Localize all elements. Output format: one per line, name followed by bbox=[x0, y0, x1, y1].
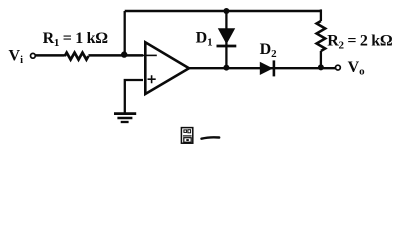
svg-text:R2 = 2 kΩ: R2 = 2 kΩ bbox=[327, 32, 393, 51]
svg-text:D1: D1 bbox=[196, 30, 213, 49]
svg-text:Vo: Vo bbox=[348, 59, 366, 78]
svg-text:Vi: Vi bbox=[9, 47, 24, 66]
svg-text:R1 = 1 kΩ: R1 = 1 kΩ bbox=[43, 30, 109, 49]
svg-text:D2: D2 bbox=[260, 41, 278, 60]
